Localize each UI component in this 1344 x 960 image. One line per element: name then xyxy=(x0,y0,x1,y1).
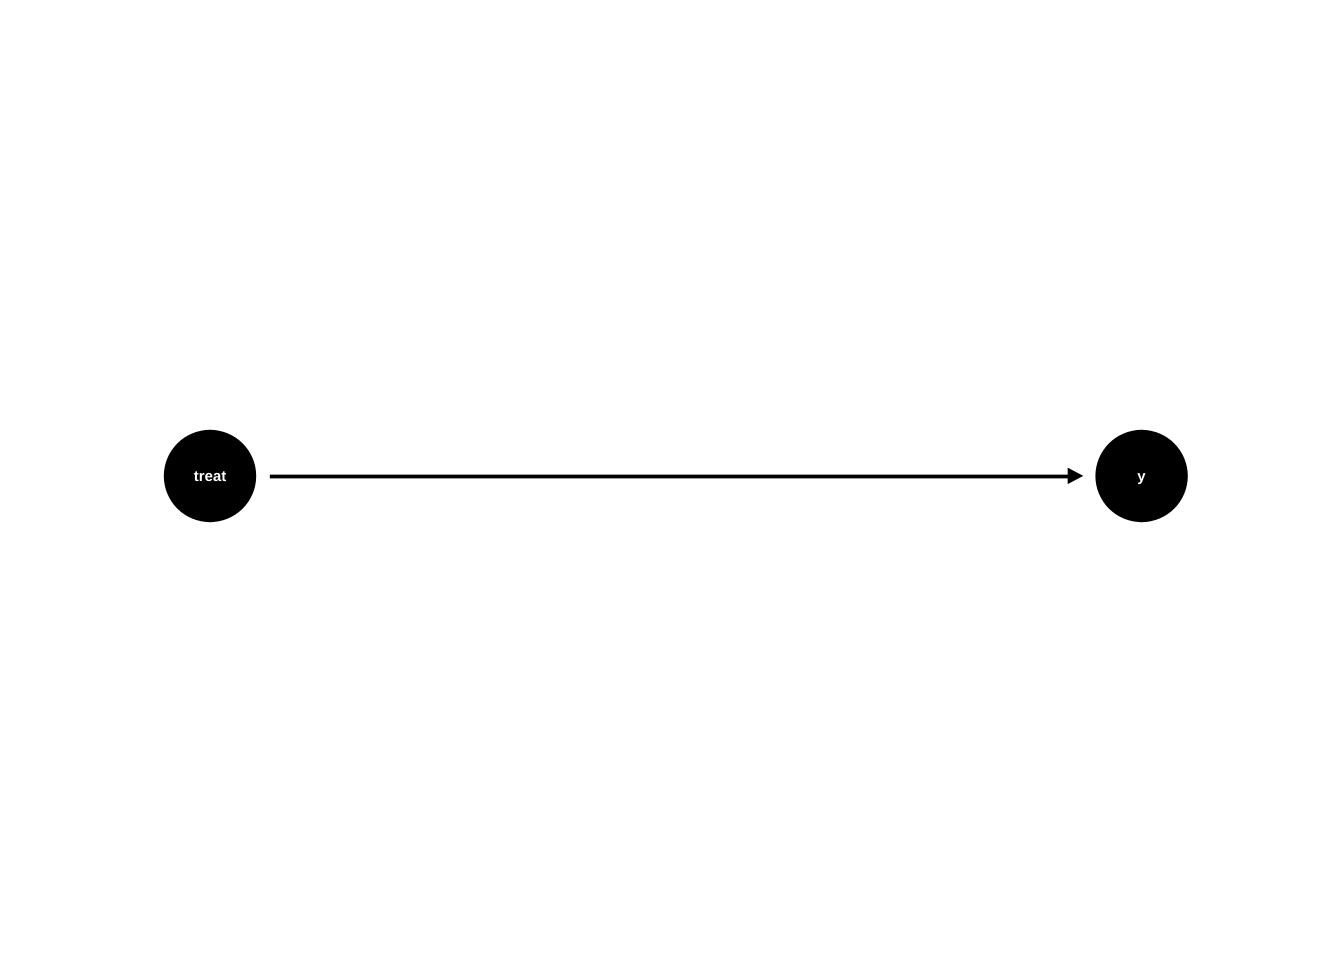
node treat (black circle vertex) xyxy=(164,430,256,522)
node treat label "treat" xyxy=(194,471,226,481)
node y label "y" xyxy=(1137,473,1145,484)
node y (black circle vertex) xyxy=(1095,430,1187,522)
wire: edge shaft treat -> y xyxy=(270,475,1069,479)
arrowhead of edge treat -> y xyxy=(1068,468,1084,485)
